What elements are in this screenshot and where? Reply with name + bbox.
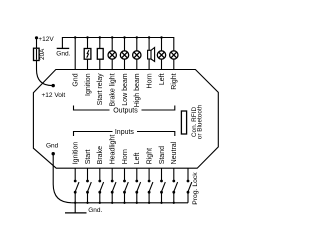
svg-text:20A: 20A — [39, 48, 46, 60]
node +12V terminal — [35, 36, 54, 43]
wire start relay to pin — [99, 59, 101, 69]
wire fuse to +12 Volt node (curved) — [37, 61, 53, 86]
junction top bus / ignition coil — [86, 36, 88, 38]
wire Gnd pin — [74, 38, 76, 70]
switch headlight — [111, 168, 116, 203]
wire brake light top — [111, 38, 113, 51]
switch start — [86, 168, 91, 203]
svg-text:Inputs: Inputs — [115, 129, 135, 136]
svg-text:or Bluetooth: or Bluetooth — [197, 104, 204, 139]
start relay coil — [97, 49, 103, 60]
switch right — [148, 168, 153, 203]
junction bottom bus / brake switch — [99, 202, 101, 204]
svg-text:Ignition: Ignition — [85, 73, 92, 96]
junction top bus / horn — [148, 36, 150, 38]
svg-text:Outputs: Outputs — [113, 108, 138, 115]
svg-text:Right: Right — [171, 73, 178, 89]
svg-text:Brake light: Brake light — [110, 73, 117, 106]
wire high beam to pin — [136, 59, 138, 69]
switch prog lock — [187, 168, 192, 203]
junction top bus / left lamp — [160, 36, 162, 38]
svg-text:Gnd.: Gnd. — [88, 207, 102, 214]
junction top bus / high beam — [136, 36, 138, 38]
wire brake light to pin — [111, 59, 113, 69]
junction top bus / low beam — [123, 36, 125, 38]
ignition coil (spark box) — [84, 49, 91, 60]
wire chip Gnd to bottom bus (curved) — [53, 154, 72, 203]
switch brake — [98, 168, 103, 203]
wire low beam to pin — [124, 59, 126, 69]
lamp low beam — [120, 51, 128, 59]
wire horn top — [148, 38, 150, 51]
junction top bus / start relay — [99, 36, 101, 38]
node +12 Volt — [42, 84, 66, 99]
switch stand — [160, 168, 165, 203]
junction bottom bus / ignition switch — [74, 202, 76, 204]
junction top bus / Gnd — [74, 36, 76, 38]
wire low beam top — [124, 38, 126, 51]
svg-text:Right: Right — [147, 148, 154, 164]
svg-text:+12V: +12V — [38, 36, 54, 43]
svg-text:Gnd: Gnd — [46, 142, 59, 149]
ground symbol (top) — [56, 48, 70, 57]
Outputs bracket — [74, 106, 175, 115]
wire start relay top — [99, 38, 101, 49]
junction bottom bus / right switch — [148, 202, 150, 204]
controller U1 body — [33, 70, 218, 169]
lamp high beam — [133, 51, 141, 59]
svg-text:Neutral: Neutral — [171, 141, 178, 164]
switch ignition — [74, 168, 79, 203]
svg-text:Ignition: Ignition — [73, 142, 80, 165]
wire high beam top — [136, 38, 138, 51]
junction bottom bus / horn switch — [123, 202, 125, 204]
switch horn — [123, 168, 128, 203]
ground symbol (bottom) — [65, 203, 102, 214]
horn speaker — [148, 48, 155, 62]
bottom bus wire — [72, 202, 188, 204]
junction bottom bus / stand switch — [160, 202, 162, 204]
node Gnd inside controller — [46, 142, 59, 155]
svg-text:Left: Left — [134, 153, 141, 165]
svg-text:Gnd: Gnd — [73, 73, 80, 86]
svg-text:Prog. Lock: Prog. Lock — [192, 172, 199, 205]
Inputs bracket — [74, 129, 175, 136]
svg-text:Low beam: Low beam — [122, 73, 129, 105]
svg-text:Headlight: Headlight — [110, 135, 117, 165]
svg-text:Stand: Stand — [159, 146, 166, 164]
svg-text:Horn: Horn — [122, 149, 129, 164]
wire +12V terminal to fuse — [36, 38, 38, 48]
wire horn to pin — [148, 59, 150, 70]
switch left — [135, 168, 140, 203]
svg-text:Left: Left — [159, 73, 166, 85]
svg-text:Start relay: Start relay — [97, 73, 104, 105]
svg-text:Gnd.: Gnd. — [56, 50, 70, 57]
wire left lamp to pin — [161, 59, 163, 69]
junction bottom bus / headlight switch — [111, 202, 113, 204]
fuse F1 20A — [34, 48, 47, 61]
svg-text:Brake: Brake — [97, 146, 104, 164]
junction bottom bus / start switch — [86, 202, 88, 204]
connector J1 RFID/Bluetooth — [181, 104, 203, 139]
wire right lamp to pin — [173, 59, 175, 69]
lamp brake light — [108, 51, 116, 59]
wire ignition coil to pin — [87, 59, 89, 69]
lamp left — [157, 51, 165, 59]
junction bottom bus / neutral switch — [173, 202, 175, 204]
top ground bus wire — [62, 38, 173, 51]
svg-text:Horn: Horn — [147, 73, 154, 88]
svg-text:+12 Volt: +12 Volt — [42, 92, 66, 99]
svg-text:Start: Start — [85, 149, 92, 164]
lamp right — [170, 51, 178, 59]
switch neutral — [172, 168, 177, 203]
svg-text:High beam: High beam — [134, 73, 141, 107]
wire left lamp top — [161, 38, 163, 51]
junction top bus / brake light — [111, 36, 113, 38]
junction bottom bus / left switch — [136, 202, 138, 204]
wire ignition coil top — [87, 38, 89, 49]
